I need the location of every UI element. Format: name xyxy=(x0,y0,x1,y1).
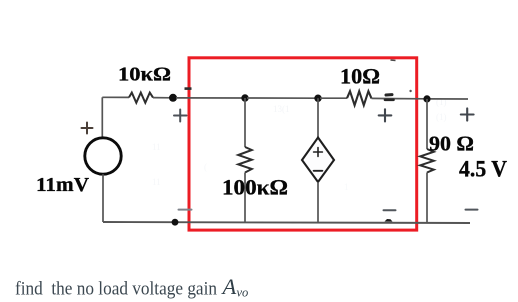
artifact tick above red top edge xyxy=(391,59,396,62)
wire: top rail left segment xyxy=(102,96,129,98)
voltage source VS circle xyxy=(85,138,121,174)
resistor R2 10Ω xyxy=(347,91,372,105)
svg-text:10Ω: 10Ω xyxy=(340,64,380,89)
plus sign output port (inside red box right) xyxy=(379,109,392,121)
svg-text:find the no load voltage gain: find the no load voltage gain xyxy=(15,279,217,300)
svg-text:90 Ω: 90 Ω xyxy=(429,132,474,156)
minus sign output port (inside red box right) xyxy=(384,209,396,211)
svg-text:(: ( xyxy=(204,162,207,172)
wire: top-left vertical from source to top rail xyxy=(101,97,103,138)
faint scan bleed-through artifacts xyxy=(152,97,447,192)
wire: top rail node C to R2 xyxy=(320,97,347,99)
wire: 90Ω top lead xyxy=(426,99,428,149)
node C (top of dependent source) xyxy=(314,95,321,102)
resistor R1 10kΩ xyxy=(129,93,153,103)
node D (top of 90Ω) xyxy=(423,95,430,102)
minus sign input port (crossing red box left) xyxy=(179,209,192,211)
wire: 90Ω bottom lead xyxy=(426,173,428,224)
wire: top rail R2 to node D xyxy=(372,97,426,99)
node B (top of 100kΩ) xyxy=(241,94,248,101)
svg-text:11: 11 xyxy=(152,142,161,152)
wire: top rail R1 to node A xyxy=(153,97,171,99)
blob artifact on bottom rail xyxy=(385,219,393,222)
artifact dash crossing red box upper left xyxy=(185,87,192,90)
wire: 100kΩ bottom lead xyxy=(244,173,246,223)
wire: bottom rail xyxy=(103,222,470,223)
wire: top rail node B to node C xyxy=(247,97,316,99)
svg-text:10κΩ: 10κΩ xyxy=(118,64,171,86)
minus inside diamond xyxy=(314,170,323,172)
artifact dot near red right edge xyxy=(409,90,411,92)
plus sign of source xyxy=(82,123,93,134)
svg-text:1: 1 xyxy=(344,182,349,192)
svg-text:11: 11 xyxy=(152,177,161,187)
resistor R4 90Ω (vertical) xyxy=(420,149,434,173)
resistor R3 100kΩ (vertical) xyxy=(238,147,252,173)
wire: dependent source bottom lead xyxy=(317,182,319,223)
minus sign external port (right, above bottom rail) xyxy=(466,209,478,211)
plus sign input port (inside red box left) xyxy=(174,110,187,122)
scribble artifact on wire xyxy=(385,95,394,100)
wire: 100kΩ top lead xyxy=(244,98,246,147)
dependent source U1 (diamond) xyxy=(302,138,334,183)
node A (junction dot after R1) xyxy=(169,94,177,102)
red highlight rectangle xyxy=(189,58,417,230)
wire: dependent source top lead xyxy=(317,98,319,138)
plus inside diamond xyxy=(314,148,323,157)
wire: top rail node A to node B xyxy=(176,97,243,99)
plus sign external port (right of red box) xyxy=(461,108,474,120)
svg-text:(1): (1) xyxy=(436,112,447,122)
svg-text:11mV: 11mV xyxy=(36,174,89,196)
svg-text:4.5 V: 4.5 V xyxy=(459,157,507,183)
svg-text:vo: vo xyxy=(237,286,249,300)
wire: source bottom to bottom rail xyxy=(102,174,104,222)
svg-text:13(1: 13(1 xyxy=(273,104,290,114)
svg-text:A: A xyxy=(221,274,237,299)
svg-text:100κΩ: 100κΩ xyxy=(222,175,288,200)
node E (bottom rail junction dot) xyxy=(172,219,179,226)
wire: stub right of node D xyxy=(431,98,469,100)
